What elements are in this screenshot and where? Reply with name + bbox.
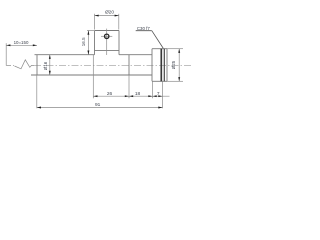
svg-text:91: 91 [95,102,101,108]
boss right edge [118,31,120,55]
svg-text:10=150: 10=150 [14,40,29,45]
flange left edge [151,49,153,82]
flange inner line [163,49,165,82]
labels group [14,9,177,108]
arrow row2 left [37,107,41,109]
row1 dimension line [93,95,169,97]
svg-text:26: 26 [107,91,113,97]
shaft left edge [36,55,38,75]
arrow D16 bottom [49,71,51,75]
svg-text:Ø25: Ø25 [171,60,176,69]
dimension 150 line [6,44,37,46]
boss left edge [94,31,96,55]
row2 dimension line [37,107,163,109]
svg-text:Ø20: Ø20 [105,9,114,15]
dimension D20 ext left [94,14,96,30]
shaft outline top [35,54,95,56]
arrow row1 at 152 right [153,95,157,97]
arrow 16.5 top [87,31,89,35]
arrow 16.5 bottom [87,51,89,55]
shaft outline bottom [31,74,152,76]
arrow row1 at 162 [158,95,162,97]
arrow row1 at 152 left [148,95,152,97]
arrow row2 right [158,107,162,109]
wire main centerline [34,64,193,66]
arrow dim150 left [6,44,10,46]
arrow row1 at 129 left [125,95,129,97]
arrow row1 at 93 [93,95,97,97]
dimension D20 ext right [118,14,120,30]
dimension D16 line [49,55,51,75]
arrow D20 left [95,15,99,17]
leader diagonal [152,31,164,49]
hole circle [105,34,109,38]
dimension 16.5 ext [87,30,94,32]
flange bottom edge [152,80,167,82]
svg-text:18: 18 [135,91,141,97]
row2 ext left [36,75,38,108]
arrow D25 top [178,49,180,53]
arrow D20 right [115,15,119,17]
wire break-region centerline dot [13,64,14,66]
dimension D25 line [178,49,180,82]
wire break zigzag [15,60,35,69]
arrow D25 bottom [178,77,180,81]
hole horizontal centerline [101,35,112,37]
row1 ext b [128,75,130,98]
svg-text:7: 7 [157,91,160,97]
arrow row1 at 129 right [129,95,133,97]
dimension D20 line [95,15,119,17]
row1 ext a [92,55,94,98]
arrows group [6,15,180,109]
dimension D25 ext bottom [167,80,183,82]
svg-text:Ø16: Ø16 [43,61,48,70]
flange top edge [152,48,167,50]
svg-text:C30 f7: C30 f7 [137,26,150,31]
node left end edge [5,43,7,65]
flange groove line thick [160,49,162,82]
shaft outline top right [119,54,152,56]
leader underline [136,30,152,32]
dimension 16.5 line [87,31,89,55]
dimension D25 ext top [167,48,183,50]
boss base line [95,49,120,51]
wire break-region centerline dash [6,64,11,66]
boss top edge [95,30,120,32]
row1 ext d shared [162,81,164,108]
svg-text:16.5: 16.5 [81,37,86,46]
row1 ext c [152,81,154,98]
flange right edge [166,49,168,82]
arrow D16 top [49,55,51,59]
arrow dim150 right [33,44,37,46]
shaft step line [128,55,130,75]
hole vertical centerline [106,29,108,55]
